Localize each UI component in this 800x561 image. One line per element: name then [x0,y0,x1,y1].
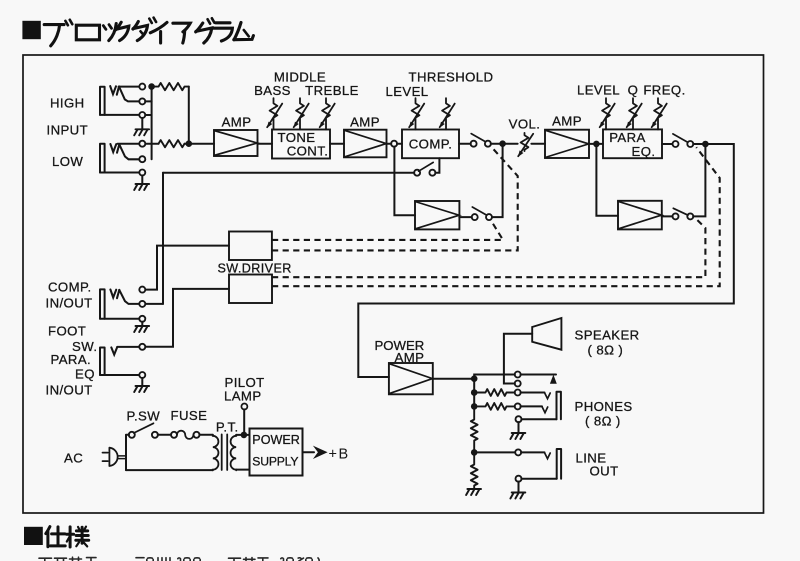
switch SW5 arm [673,208,688,215]
contact speaker shorting blade [550,375,557,384]
svg-text:IN/OUT: IN/OUT [46,383,93,398]
switch SW5 bypass terminal b [687,213,693,219]
wire J4 sleeve line [100,374,139,376]
terminal node B [391,141,397,147]
wire node B to comp [397,143,402,145]
svg-text:IN/OUT: IN/OUT [46,296,93,311]
sw driver B box [229,275,272,304]
terminal J3 ring [139,301,145,307]
switch SW3 insert terminal b [429,170,435,176]
wire J5 sleeve line [521,418,556,420]
terminal J1 tip [139,84,145,90]
terminal J3 tip [139,287,145,293]
switch SW1 comp out terminal b [485,141,491,147]
svg-text:+B: +B [329,447,350,463]
jack J4 tip contact [111,347,117,354]
wire J1 tip to node [119,86,140,88]
resistor R1 HIGH [155,83,189,90]
resistor R3 phones [474,389,515,396]
terminal J2 sleeve [139,170,145,176]
junction phones node2 [471,403,478,410]
wire SW5 to node E [693,144,705,216]
jack J2 LOW input body [100,144,105,173]
wire J6 sleeve line [521,478,556,480]
svg-text:LAMP: LAMP [224,389,262,404]
wire secondary bottom [236,469,249,471]
wire J2 sleeve line [100,172,139,174]
fuse F1 terminal b [194,432,200,438]
ground G2 [134,184,149,190]
svg-text:PARA: PARA [609,130,646,145]
terminal speaker jack return [515,381,521,387]
compressor U4 [402,130,459,159]
switch SW3 insert terminal a [414,170,420,176]
wire speaker branch [504,334,532,384]
svg-text:POWER: POWER [252,433,300,447]
wire ac riser [125,435,127,470]
wire U3 to node B [387,143,392,145]
dashed control line B1 [272,218,705,277]
potentiometer Q [626,98,641,129]
wire line out tip to contact [521,451,544,453]
wire node F down [473,379,475,393]
terminal J4 tip [139,344,145,350]
svg-text:HIGH: HIGH [50,96,85,111]
terminal J2 tip [139,141,145,147]
switch SW4 arm [673,134,687,142]
resistor R2 LOW [159,140,185,147]
wire node1 to node2 [473,393,475,407]
terminal phones ring [515,403,521,409]
svg-text:LOW: LOW [52,154,83,169]
lamp PL1 [241,404,247,410]
bypass amp U8 [618,201,662,230]
svg-text:PARA.: PARA. [51,352,92,367]
jack J1 ring lever [119,87,139,102]
switch P.SW arm [134,423,154,433]
wire SW3 to comp bottom [435,158,439,173]
wire R1 down to LOW line [188,87,190,144]
wire node C to vol [503,143,518,145]
wire U8 to SW5 [662,215,673,217]
wire J3 ground stub [141,322,143,326]
potentiometer VOL [518,133,533,157]
svg-text:( 8Ω ): ( 8Ω ) [585,414,621,429]
svg-text:P.SW: P.SW [127,409,161,424]
sw driver A box [229,232,272,261]
wire comp jack tip to driver A [145,246,229,290]
wire pilot lamp stem [243,409,245,435]
resistor R5 divider [471,406,478,452]
terminal J3 sleeve [139,316,145,322]
svg-text:LEVEL: LEVEL [577,83,620,98]
junction line out node [471,449,478,456]
switch SW4 para out terminal a [673,141,679,147]
wire SW1 to node C [491,143,500,145]
speaker LS1 horn [532,318,561,350]
wire insert riser [162,173,164,304]
resistor R4 phones [474,403,515,410]
svg-text:( 8Ω ): ( 8Ω ) [588,343,624,358]
jack J3 ring lever [119,290,139,304]
switch SW1 arm [471,134,485,142]
potentiometer TREBLE [319,98,334,129]
wire feedback to power amp [358,144,734,377]
transformer T1 primary [213,435,219,471]
svg-text:FOOT: FOOT [48,324,86,339]
switch P.SW terminal b [152,432,158,438]
wire resistor to junction [185,143,215,145]
jack J4 foot sw body [100,348,105,376]
wire J2 ground stub [141,175,143,184]
junction node D [593,141,600,148]
ground G4 [134,386,149,392]
transformer T1 core [222,434,228,470]
switch SW2 bypass terminal b [486,214,492,220]
junction node E [702,141,709,148]
parametric eq U7 [603,129,662,158]
wire J5 ground stub [518,422,520,433]
dashed control line A1 [272,220,503,240]
jack J3 tip contact [110,290,116,298]
svg-text:AMP: AMP [222,115,252,130]
svg-text:SW.DRIVER: SW.DRIVER [218,262,292,276]
fuse F1 terminal a [171,432,177,438]
tone control U2 [272,130,330,159]
svg-text:OUT: OUT [590,464,619,479]
svg-text:THRESHOLD: THRESHOLD [409,70,494,85]
svg-text:SPEAKER: SPEAKER [575,328,640,343]
spec text fragment tops [39,557,319,561]
terminal J5 sleeve [516,416,522,422]
amp U3 [344,130,387,158]
wire SW4 to node E [693,143,702,145]
dashed control line B2 [272,147,720,286]
dashed control line A2 [272,148,518,251]
jack J5 phones body [557,392,561,420]
wire U5 to para eq [589,143,603,145]
ground G6 [510,493,525,499]
switch SW2 arm [472,207,486,215]
wire tone to U3 [330,143,344,145]
title block-diagram heading [22,18,253,46]
jack J2 tip contact [110,144,116,152]
wire ac top branch [126,434,129,436]
wire node F to speaker jack [474,375,515,379]
ground G1 [134,129,149,135]
wire phones tip to contact [521,392,545,394]
switch SW2 bypass terminal a [472,214,478,220]
wire J1 ground stub [141,118,143,129]
svg-text:AC: AC [64,451,83,466]
potentiometer LEVEL para [599,98,614,129]
jack J6 line out body [557,449,561,479]
wire comp bypass feed [394,147,415,216]
terminal J1 ring [139,98,145,104]
wire para bypass feed [596,147,618,216]
junction output node F [471,375,478,382]
switch SW4 para out terminal b [687,141,693,147]
arrow B+ [313,446,328,459]
wire comp out [459,143,471,145]
wire J2 tip to resistor [117,143,158,145]
wire fuse to transformer [199,434,212,436]
svg-text:SUPPLY: SUPPLY [252,454,298,468]
wire U1 to tone [258,143,273,145]
wire J3 sleeve line [100,318,139,320]
svg-text:EQ: EQ [75,367,95,382]
power supply PS1 box [250,429,303,476]
terminal J6 sleeve [516,476,522,482]
resistor R6 divider [471,452,478,489]
ground G5 [510,433,525,439]
wire J4 tip lead [117,346,139,348]
svg-text:TREBLE: TREBLE [305,83,359,98]
svg-text:VOL.: VOL. [509,117,541,132]
svg-text:P.T.: P.T. [216,420,239,435]
terminal J1 sleeve [139,112,145,118]
svg-text:EQ.: EQ. [632,144,656,159]
wire J1 sleeve line [100,114,139,116]
amp U5 [545,130,589,158]
fuse F1 element [177,431,193,439]
svg-text:INPUT: INPUT [47,123,89,138]
ground G3 [134,326,149,332]
transformer T1 secondary [231,435,237,471]
wire J4 ground stub [141,378,143,386]
svg-text:AMP: AMP [350,115,380,130]
svg-text:FREQ.: FREQ. [643,83,685,98]
svg-text:FUSE: FUSE [171,408,208,423]
wire comp insert line [163,172,414,174]
spec heading [24,527,89,547]
wire PS1 output [303,451,315,453]
wire foot sw to driver B [145,289,229,347]
wire bus HIGH column [151,87,153,160]
jack J3 comp in/out body [100,289,105,318]
terminal J2 ring [139,156,145,162]
wire SW2 to node C [492,144,503,217]
svg-text:CONT.: CONT. [287,144,329,159]
junction node C [499,140,506,147]
wire psw to fuse [158,434,171,436]
potentiometer BASS [267,98,282,129]
svg-text:COMP.: COMP. [409,137,453,152]
junction pilot node [241,432,248,439]
power amp U9 [389,363,433,394]
jack J1 tip contact [110,86,116,94]
contact line out V [545,453,551,459]
potentiometer LEVEL comp [409,98,424,129]
wire line out [474,451,515,453]
potentiometer THRESHOLD [439,98,454,129]
svg-text:COMP.: COMP. [48,280,92,295]
wire J1 sleeve stub [145,114,151,116]
svg-text:BASS: BASS [254,83,291,98]
jack J2 ring lever [119,144,139,159]
bypass amp U6 [415,201,459,229]
jack J1 HIGH input body [100,87,105,115]
terminal J4 sleeve [139,372,145,378]
contact phones ring V [542,407,548,413]
wire ac bottom line [126,469,213,471]
junction input node A [186,140,193,147]
wire speaker jack shorting line [521,374,556,376]
terminal speaker jack tip [515,372,521,378]
svg-text:PHONES: PHONES [575,399,633,414]
amp U1 [214,130,258,156]
switch SW1 comp out terminal a [471,141,477,147]
junction phones node1 [471,389,478,396]
terminal line out tip [515,449,521,455]
ac plug P1 [103,448,126,466]
potentiometer FREQ [651,98,666,129]
wire comp jack ring riser [145,303,163,305]
wire J6 ground stub [518,482,520,493]
svg-text:AMP: AMP [552,114,582,129]
wire U9 output [433,378,474,380]
junction HIGH node [148,83,155,90]
potentiometer MIDDLE [293,98,308,129]
svg-text:Q: Q [628,83,639,98]
wire U6 to SW2 [459,216,471,218]
ground G7 [466,489,481,495]
wire vol to U5 [531,143,545,145]
svg-text:LEVEL: LEVEL [385,84,428,99]
switch SW3 arm [419,162,434,171]
wire secondary top [236,434,249,436]
switch SW5 bypass terminal a [673,213,679,219]
wire J1 ring stub [145,100,151,102]
contact phones tip V [545,393,551,399]
wire para out [662,143,673,145]
terminal phones tip [515,390,521,396]
switch P.SW terminal a [129,432,135,438]
diagram frame [23,55,764,513]
wire phones ring to contact [521,405,542,407]
